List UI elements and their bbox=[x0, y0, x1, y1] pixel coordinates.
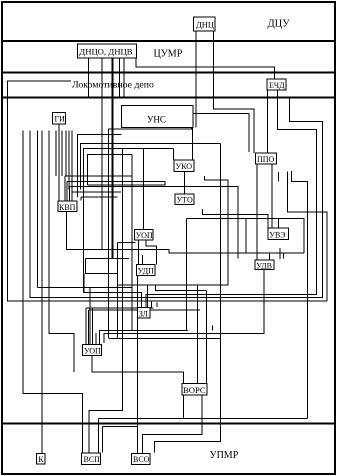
wire ZL right riser a bbox=[150, 301, 152, 308]
wire UOP2 feeder a drop bbox=[85, 308, 87, 345]
svg-text:УКО: УКО bbox=[176, 162, 193, 171]
svg-text:К: К bbox=[38, 455, 44, 464]
wire band bus jog via right bus back left bbox=[30, 98, 322, 298]
wire KVP side stub line bbox=[81, 196, 118, 198]
box UDP bbox=[136, 265, 155, 276]
wire UOP2 feeder b bbox=[88, 309, 200, 311]
svg-text:ВСО: ВСО bbox=[133, 455, 150, 464]
wire L4 drop to UOP2 bbox=[100, 218, 187, 344]
box PPO bbox=[256, 153, 277, 164]
wire KVP feed 1 bbox=[65, 175, 132, 177]
wire L4 long bbox=[186, 217, 278, 219]
wire UOP2 bottom to VORS bbox=[92, 355, 183, 383]
wire VORS top feed 1 bbox=[197, 285, 199, 384]
wire VORS top feed 2 bbox=[205, 291, 207, 384]
wire KVP feed 3 long bbox=[70, 187, 239, 259]
bottom feeder line bbox=[98, 418, 307, 420]
wire left drop short d bbox=[68, 131, 70, 190]
wire UOP2 feeder a bbox=[86, 307, 153, 309]
wire DNCO drop 5 bbox=[123, 58, 125, 98]
svg-text:ГИ: ГИ bbox=[55, 115, 66, 124]
wire UKO to UTO bbox=[184, 172, 186, 195]
svg-text:УНС: УНС bbox=[147, 115, 166, 125]
wire KVP feed 2 U-turn bbox=[67, 181, 165, 185]
wire ZL bus line bbox=[38, 286, 132, 288]
wire UVE bottom stub bbox=[279, 248, 281, 259]
box UTO bbox=[175, 194, 194, 204]
wire bus3 drop long bbox=[131, 154, 133, 330]
wire KVP feed 1 drop bbox=[64, 176, 66, 201]
box DNCO DNCV bbox=[78, 44, 137, 58]
wire left drop short e bbox=[71, 131, 73, 192]
svg-text:ВОРС: ВОРС bbox=[183, 385, 206, 395]
box VSO bbox=[132, 453, 151, 464]
wire UOP1 bottom to UDP bbox=[137, 240, 139, 265]
wire DNCO to ECHD top bbox=[136, 58, 275, 79]
wire ECHD bottom via right bus to ZL bbox=[146, 90, 317, 308]
wire VORS bottom to feeder line bbox=[182, 395, 184, 419]
bus line depot band bottom bbox=[2, 97, 335, 99]
wire left drop to ZL bus bbox=[37, 131, 39, 288]
wire UVE top right jog bbox=[279, 218, 305, 253]
wire middle jog to VORS feed bbox=[118, 285, 207, 291]
box UOP2 bbox=[83, 345, 102, 356]
box UNS bbox=[121, 106, 193, 128]
wire DNCO drop 1 bbox=[88, 58, 90, 98]
svg-text:УДП: УДП bbox=[138, 267, 154, 276]
box ZL bbox=[137, 308, 150, 319]
wire left drop short b bbox=[61, 131, 63, 177]
wire U bracket lower bbox=[85, 259, 117, 274]
wire bottom stub line bbox=[102, 426, 137, 428]
wire left drop to VSP bbox=[23, 131, 83, 453]
wire KVP side stub bbox=[80, 197, 82, 201]
wire bottom stub drop bbox=[101, 427, 103, 453]
wire UDP top stub bbox=[141, 255, 143, 265]
wire KVP bottom jog long bbox=[67, 212, 304, 254]
wire left drop to K bbox=[41, 131, 43, 454]
wire DNC left to UNS bbox=[195, 31, 197, 128]
wire hanging vertical 246 bbox=[245, 218, 247, 253]
svg-text:УОП: УОП bbox=[136, 231, 153, 240]
wire PPO bottom to UVE bbox=[271, 164, 273, 228]
wire U bracket upper bbox=[85, 258, 129, 260]
wire DNCO drop 4 bbox=[118, 58, 120, 98]
wire UNS right to PPO stub bbox=[193, 113, 249, 152]
svg-text:УОП: УОП bbox=[84, 347, 101, 356]
wire UOP2 bus horizontal bbox=[100, 330, 188, 332]
wire left drop short a bbox=[55, 131, 57, 177]
wire bus1 long drop to VSO bbox=[154, 144, 220, 453]
wire UDV top feed bbox=[268, 253, 270, 260]
wire KVP feed 2 drop bbox=[66, 181, 68, 201]
wire UDV bottom loop left bbox=[104, 270, 264, 343]
svg-text:Локомотивное депо: Локомотивное депо bbox=[72, 80, 154, 91]
wire ECHD bottom to PPO top bbox=[267, 90, 269, 153]
svg-text:ДНЦ: ДНЦ bbox=[196, 20, 214, 30]
wire UNS fan bus 3 bbox=[88, 154, 133, 185]
wire feeder to VSP bbox=[97, 419, 99, 454]
box KVP bbox=[58, 201, 77, 212]
wire VORS bottom to VSO bbox=[142, 395, 202, 453]
wire long horizontal 338 bbox=[109, 338, 221, 340]
wire DNC right to PPO top bbox=[214, 31, 255, 153]
box UDV bbox=[255, 260, 274, 270]
svg-text:УДВ: УДВ bbox=[256, 261, 272, 270]
wire UNS corner to UKO bbox=[192, 128, 194, 160]
wire stub above UDV right bbox=[282, 253, 284, 259]
wire right bus outer loop bbox=[288, 171, 328, 301]
wire GI to KVP bbox=[58, 124, 60, 201]
svg-text:ЗЛ: ЗЛ bbox=[139, 310, 149, 319]
wire staircase to ZL bbox=[148, 176, 229, 307]
svg-text:ЦУМР: ЦУМР bbox=[154, 49, 183, 60]
wire UOP1 bottom jog to UDP bbox=[146, 240, 157, 265]
bus line CUMR band bottom bbox=[2, 72, 335, 74]
svg-text:УВЭ: УВЭ bbox=[269, 231, 285, 240]
wire left drop short c bbox=[65, 131, 67, 177]
svg-text:УПМР: УПМР bbox=[210, 450, 239, 461]
wire UNS fan bus 2 bbox=[84, 148, 174, 292]
wire UOP2 feeder b drop bbox=[87, 310, 89, 345]
wire bus2 to UKO bbox=[172, 148, 174, 160]
box K bbox=[36, 453, 45, 464]
svg-text:ППО: ППО bbox=[257, 155, 275, 164]
wire right long drop to bottom feeder bbox=[291, 171, 307, 419]
box GI bbox=[53, 113, 66, 125]
wire KVP feed 4 drop bbox=[71, 192, 73, 201]
svg-text:ЕЧД: ЕЧД bbox=[269, 81, 285, 90]
wire bus2 drop to UOP1 bbox=[142, 148, 144, 229]
wire ZL bus drop to UOP2 bbox=[89, 287, 91, 344]
wire 117 long drop bbox=[117, 243, 119, 339]
box ECHD bbox=[267, 79, 286, 90]
wire stub on UOP2 bus bbox=[212, 325, 214, 330]
wire stub below PPO right bbox=[277, 172, 279, 182]
wire L2 to UVE top left bbox=[203, 209, 268, 228]
svg-text:УТО: УТО bbox=[177, 196, 193, 205]
wire UDP bottom to VSO bbox=[137, 276, 139, 454]
wire UNS fan bus 1 bbox=[81, 144, 221, 190]
wire long drop to VSP 2 bbox=[89, 148, 122, 454]
wire UOP2 feeder c drop bbox=[91, 308, 93, 345]
box VSP bbox=[82, 453, 101, 464]
box UOP1 bbox=[134, 229, 153, 240]
wire 117 corner stub bbox=[118, 242, 136, 244]
box UKO bbox=[174, 160, 194, 172]
box DNC bbox=[194, 17, 216, 31]
bus line UPMR band top bbox=[2, 423, 335, 425]
wire PPO bottom to UDV bbox=[256, 164, 258, 260]
svg-text:ДНЦО, ДНЦВ: ДНЦО, ДНЦВ bbox=[79, 47, 132, 57]
box UVE bbox=[268, 228, 289, 240]
wire DNCO drop 3 long bbox=[112, 58, 114, 259]
wire ZL right riser b bbox=[156, 303, 158, 307]
depot frame left edge and bottom bbox=[8, 81, 328, 301]
wire UOP2 feeder d drop bbox=[95, 333, 97, 345]
wire DNCO drop 2 long bbox=[101, 58, 103, 250]
box VORS bbox=[182, 384, 207, 396]
svg-text:КВП: КВП bbox=[59, 203, 76, 212]
svg-text:ДЦУ: ДЦУ bbox=[268, 19, 291, 30]
wire ZL top left feed bbox=[84, 292, 142, 307]
wire left drop Z-step bbox=[49, 131, 74, 372]
bus line DCU band bottom bbox=[2, 40, 335, 42]
wire KVP feed 4 bbox=[72, 191, 121, 193]
svg-text:ВСП: ВСП bbox=[84, 455, 101, 464]
wire UNS fan bus 0 bbox=[77, 135, 121, 197]
wire stub below U bracket bbox=[83, 273, 85, 292]
wire UNS under-box fan long drop bbox=[109, 128, 192, 339]
wire KVP feed 3 drop bbox=[69, 187, 71, 201]
